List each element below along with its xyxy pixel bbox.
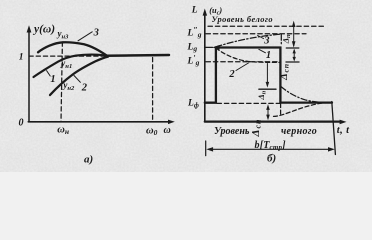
- curve 3 dash-dot overshoot (top): [216, 34, 281, 47]
- left x-axis: [28, 121, 168, 123]
- dashed L'g level line: [206, 61, 280, 63]
- right bracket line of pulse width: [332, 102, 336, 155]
- dashed omega_n vertical line: [61, 42, 62, 122]
- left y-axis: [28, 31, 30, 122]
- svg-text:а): а): [84, 153, 93, 165]
- svg-text:y(ω): y(ω): [32, 24, 55, 36]
- dashed L''g level line: [206, 33, 306, 35]
- svg-text:2: 2: [81, 82, 88, 93]
- leader line to label 3: [78, 32, 92, 41]
- svg-text:Lg: Lg: [187, 43, 198, 53]
- dashed white level line: [208, 25, 326, 27]
- dimension right arrowhead: [328, 147, 335, 152]
- L_g level pointer arrowhead: [212, 45, 219, 50]
- dashed L_f level line under pulse: [217, 102, 280, 104]
- svg-text:черного: черного: [281, 126, 317, 137]
- tick at tail level: [259, 88, 276, 90]
- dashed unity level line: [29, 55, 104, 57]
- left y-axis arrowhead: [27, 25, 32, 32]
- svg-text:ω: ω: [164, 125, 171, 136]
- svg-text:1: 1: [19, 53, 24, 63]
- measure arrow L_f-to-black shaft: [267, 107, 269, 118]
- svg-text:3: 3: [93, 28, 99, 39]
- curve 1: [34, 55, 108, 77]
- leader line to right label 3: [258, 35, 264, 38]
- leader line to right label 2: [236, 63, 249, 71]
- curve 3 dash-dot decay tail: [281, 87, 327, 103]
- curve 2 dashed trailing drop: [280, 104, 282, 116]
- tick at L'g level: [286, 61, 299, 63]
- curve 3 dash-dot vertical drop: [280, 34, 282, 46]
- curve 3: [38, 42, 107, 55]
- measure arrow D down head: [266, 115, 270, 121]
- dimension bracket left tick: [205, 141, 207, 156]
- leader line to label 2: [74, 76, 80, 83]
- right x-axis arrowhead: [340, 120, 347, 125]
- svg-text:Уровень белого: Уровень белого: [212, 15, 274, 24]
- curve 2: [50, 57, 108, 95]
- L_g level pointer line: [205, 46, 212, 48]
- right x-axis (black level line): [205, 120, 340, 122]
- dimension line b[T_str]: [210, 148, 332, 150]
- measure arrow D up head: [266, 104, 270, 110]
- svg-text:2: 2: [228, 69, 235, 80]
- curve 2 dashed sag (top): [216, 48, 280, 62]
- svg-text:ω0: ω0: [146, 126, 158, 138]
- left x-axis arrowhead: [168, 120, 175, 125]
- svg-text:0: 0: [19, 118, 24, 129]
- dimension left arrowhead: [206, 147, 213, 152]
- measure arrow Lg-to-L'g shaft: [293, 50, 295, 60]
- svg-text:Уровень: Уровень: [214, 126, 250, 137]
- measure arrow white-to-Lg shaft: [293, 23, 295, 46]
- right y-axis: [204, 15, 206, 122]
- curve 2 dashed undershoot recovery: [274, 103, 328, 117]
- svg-text:б): б): [267, 153, 276, 165]
- svg-text:L: L: [191, 5, 198, 15]
- svg-text:Δсп: Δсп: [279, 63, 290, 81]
- measure arrow C down head: [266, 82, 270, 88]
- dashed omega_0 vertical line: [152, 58, 154, 122]
- tick at Lg level: [286, 47, 299, 49]
- right y-axis arrowhead: [203, 9, 208, 16]
- merged flat response line: [105, 54, 169, 57]
- measure arrow C shaft: [266, 64, 268, 85]
- svg-text:ωн: ωн: [57, 125, 69, 137]
- leader line to right label 1: [259, 49, 266, 53]
- svg-text:1: 1: [50, 74, 55, 85]
- svg-text:3: 3: [263, 36, 269, 47]
- leader line to label 1: [47, 71, 51, 76]
- measure arrow up head: [292, 21, 296, 27]
- ideal pulse signal (curve 1): [205, 48, 332, 103]
- measure arrow B up head: [293, 49, 296, 54]
- svg-text:1: 1: [266, 50, 271, 61]
- measure arrow down head: [292, 41, 296, 47]
- measure arrow B down head: [293, 57, 296, 62]
- svg-text:t, t: t, t: [337, 125, 350, 136]
